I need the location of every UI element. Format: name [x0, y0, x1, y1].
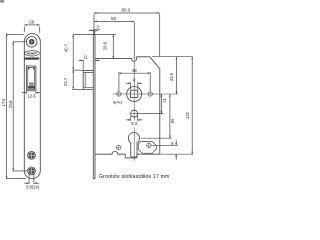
screw post bottom left — [116, 145, 120, 149]
svg-text:NEMEF: NEMEF — [27, 52, 38, 56]
hole left of follower — [117, 92, 121, 96]
svg-text:50: 50 — [111, 16, 116, 21]
dimension 21 — [138, 94, 164, 114]
svg-text:154: 154 — [8, 100, 13, 108]
svg-text:40.7: 40.7 — [63, 43, 68, 52]
dimension 55 — [141, 94, 172, 138]
euro cylinder hole — [128, 132, 139, 157]
dimension 23.7 — [72, 70, 83, 90]
latch bolt side view — [83, 70, 93, 89]
hole 9.3 — [131, 110, 138, 117]
dimension 43.5 — [176, 57, 178, 94]
svg-text:28.6: 28.6 — [102, 41, 107, 50]
svg-text:ASSA ABLOY: ASSA ABLOY — [27, 57, 38, 60]
svg-text:5.8(2x): 5.8(2x) — [26, 185, 40, 190]
NEMEF oval logo — [25, 51, 40, 56]
cylinder hole top — [26, 37, 37, 48]
internal plate around right post — [138, 142, 156, 154]
dimension 8 follower square — [126, 82, 143, 89]
screw post bottom right — [147, 143, 151, 147]
shared extension line top of strip — [73, 34, 117, 36]
screw hole lower — [28, 167, 36, 175]
side view faceplate strip — [93, 34, 95, 179]
follower square — [127, 87, 142, 102]
shared extension line top right — [152, 56, 193, 58]
svg-text:12.6: 12.6 — [27, 93, 36, 98]
dimension 154 — [12, 42, 27, 171]
screw hole upper — [28, 151, 36, 159]
svg-text:43.5: 43.5 — [169, 72, 174, 81]
svg-text:21: 21 — [162, 97, 167, 102]
dimension 11 — [79, 60, 100, 70]
svg-text:11: 11 — [83, 55, 88, 60]
dimension 5.8(2x) — [24, 174, 39, 184]
svg-text:174: 174 — [1, 99, 6, 107]
latch cutout — [26, 66, 36, 91]
dimension 38 — [119, 72, 150, 91]
dimension 122 — [160, 57, 193, 155]
svg-text:80.3: 80.3 — [122, 7, 131, 12]
dimension 80.3 — [94, 12, 160, 56]
dimension 3 — [89, 29, 101, 33]
lock case outline — [95, 57, 160, 158]
dimension 20 — [24, 24, 39, 33]
dimension 174 — [6, 34, 26, 179]
logo dark bar — [25, 57, 39, 59]
dimension 28.6 — [112, 35, 114, 59]
dimension 50 — [94, 21, 134, 60]
svg-text:38: 38 — [132, 68, 137, 73]
scan artifact top-left corner — [0, 0, 4, 3]
svg-text:122: 122 — [185, 111, 190, 119]
dimension 8 bottom right — [151, 140, 178, 159]
svg-text:20: 20 — [29, 20, 35, 25]
dimension 12.6 — [22, 91, 41, 94]
svg-text:23.7: 23.7 — [63, 77, 68, 86]
svg-text:6(4x): 6(4x) — [113, 99, 123, 104]
svg-text:Grootste slotkastdikte 17 mm: Grootste slotkastdikte 17 mm — [99, 174, 169, 180]
hole right of follower — [148, 92, 152, 96]
svg-text:9.3: 9.3 — [131, 121, 137, 126]
dimension 9.3 — [126, 116, 142, 121]
svg-text:55: 55 — [170, 118, 175, 123]
follower centerlines — [113, 93, 179, 95]
dimension 40.7 — [72, 35, 83, 71]
faceplate front view outline — [24, 34, 40, 179]
